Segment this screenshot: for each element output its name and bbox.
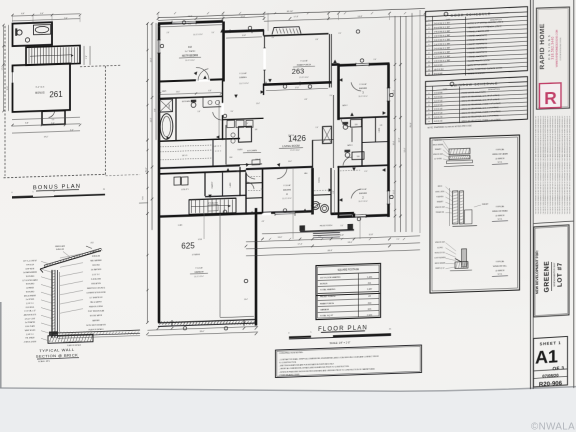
svg-text:SLOPED: SLOPED (437, 247, 443, 249)
svg-text:11'-4" X 11'-0": 11'-4" X 11'-0" (282, 198, 292, 200)
svg-text:6'-4": 6'-4" (40, 13, 44, 15)
svg-text:4/12: 4/12 (90, 242, 93, 244)
svg-text:32'-8": 32'-8" (399, 137, 401, 142)
svg-text:16'-8": 16'-8" (188, 16, 193, 18)
svg-text:4'-8": 4'-8" (262, 221, 265, 223)
svg-text:8: 8 (429, 53, 430, 55)
svg-text:LOT #7: LOT #7 (557, 262, 564, 287)
svg-text:SHWR: SHWR (162, 91, 166, 93)
svg-text:17'-2": 17'-2" (2, 65, 4, 70)
svg-text:12' CLG: 12' CLG (288, 135, 295, 137)
svg-text:7'-0": 7'-0" (246, 123, 249, 125)
svg-text:8'-4": 8'-4" (188, 23, 192, 25)
svg-text:6: 6 (429, 44, 430, 46)
svg-text:WINDOW UNIT: WINDOW UNIT (435, 207, 445, 209)
svg-text:76'-0": 76'-0" (411, 122, 413, 127)
svg-text:6'-0": 6'-0" (339, 33, 342, 35)
svg-text:LIN: LIN (380, 125, 382, 127)
svg-text:TYPICAL: TYPICAL (496, 148, 506, 151)
svg-text:5-0: 5-0 (52, 119, 54, 121)
svg-text:TYP ROOF: TYP ROOF (26, 264, 34, 266)
svg-text:GREENE: GREENE (544, 261, 551, 293)
svg-text:9: 9 (429, 57, 430, 59)
svg-text:7'-0": 7'-0" (86, 55, 88, 59)
svg-text:TOTAL HEATED: TOTAL HEATED (320, 288, 336, 292)
svg-text:A1: A1 (535, 346, 558, 367)
svg-text:SCALE: NTS: SCALE: NTS (38, 360, 50, 363)
svg-text:BRICK VENEER: BRICK VENEER (435, 263, 445, 265)
svg-text:10: 10 (332, 331, 334, 333)
svg-text:11: 11 (428, 65, 430, 67)
svg-text:3'-4": 3'-4" (374, 59, 377, 61)
svg-text:12'-0": 12'-0" (212, 146, 216, 148)
svg-text:R-13 INSUL: R-13 INSUL (26, 307, 35, 309)
svg-text:2: 2 (429, 27, 430, 29)
svg-text:REF SP: REF SP (255, 159, 260, 161)
svg-text:BEDRM: BEDRM (359, 88, 367, 90)
svg-text:LIVING ROOM: LIVING ROOM (282, 144, 299, 149)
svg-text:F: F (428, 113, 429, 115)
svg-text:17'-8": 17'-8" (295, 87, 299, 89)
svg-text:2x4 BLOCK: 2x4 BLOCK (434, 140, 441, 142)
svg-text:2-0 X 4-0: 2-0 X 4-0 (434, 108, 443, 110)
svg-text:5: 5 (429, 40, 430, 42)
svg-text:17'-4": 17'-4" (298, 243, 303, 245)
svg-text:1: 1 (429, 23, 430, 25)
svg-text:9'-0" CLG: 9'-0" CLG (36, 86, 45, 88)
svg-text:24"x12" CONT: 24"x12" CONT (25, 318, 35, 320)
svg-text:6'-8": 6'-8" (208, 90, 212, 92)
svg-text:16'-0" X 13'-0": 16'-0" X 13'-0" (193, 34, 203, 36)
svg-text:9'-0" TRAYED: 9'-0" TRAYED (185, 50, 196, 53)
svg-text:2'-0": 2'-0" (397, 239, 400, 241)
svg-text:5'-4": 5'-4" (318, 235, 322, 237)
svg-text:BRICK: BRICK (438, 186, 442, 188)
svg-text:WINDOW UNIT: WINDOW UNIT (435, 242, 445, 244)
svg-text:DECKING: DECKING (92, 265, 100, 267)
svg-text:11'-0" X 12'-4": 11'-0" X 12'-4" (239, 83, 249, 85)
svg-text:9'-0": 9'-0" (225, 329, 228, 331)
svg-text:25: 25 (389, 329, 391, 331)
svg-text:4'-0": 4'-0" (272, 37, 275, 39)
svg-text:52'-4": 52'-4" (405, 147, 407, 152)
svg-text:8'-8": 8'-8" (21, 13, 25, 15)
svg-text:NEW DEVELOPMENT FOR:: NEW DEVELOPMENT FOR: (535, 250, 539, 294)
svg-text:63'-10": 63'-10" (287, 11, 293, 13)
svg-text:318.562.3440: 318.562.3440 (551, 36, 555, 59)
svg-text:6'-4": 6'-4" (51, 122, 55, 124)
svg-text:4'-0": 4'-0" (163, 326, 167, 328)
svg-text:GARAGE: GARAGE (194, 270, 204, 273)
svg-text:TEXTURED: TEXTURED (26, 284, 35, 286)
svg-text:R: R (544, 88, 557, 108)
svg-text:PANTRY: PANTRY (211, 181, 214, 189)
svg-text:WINDOW JAMB: WINDOW JAMB (492, 153, 508, 157)
svg-text:2x4 STUDS: 2x4 STUDS (26, 299, 34, 301)
svg-text:R-38 BLOWN: R-38 BLOWN (91, 278, 102, 280)
svg-text:10: 10 (428, 61, 430, 63)
svg-text:BRICK VENEER: BRICK VENEER (433, 144, 443, 146)
svg-text:7'-4": 7'-4" (261, 189, 264, 191)
svg-text:N.T.S.: N.T.S. (498, 162, 503, 164)
svg-text:@ 16" O.C.: @ 16" O.C. (26, 303, 35, 305)
svg-text:8'-8": 8'-8" (25, 122, 29, 124)
svg-text:SHINGLES: SHINGLES (92, 255, 100, 257)
svg-text:BEDRM: BEDRM (359, 193, 367, 195)
svg-text:12: 12 (428, 69, 430, 71)
svg-text:2'-4": 2'-4" (248, 323, 252, 325)
svg-text:13'-4": 13'-4" (256, 103, 260, 105)
svg-text:46'-4": 46'-4" (328, 250, 333, 252)
svg-text:11'-8": 11'-8" (369, 234, 374, 236)
svg-text:4: 4 (429, 36, 430, 38)
svg-text:TEXTURED: TEXTURED (26, 291, 35, 293)
svg-text:10'-4": 10'-4" (394, 140, 396, 145)
svg-text:TUB: TUB (355, 124, 358, 126)
svg-text:3: 3 (429, 32, 430, 34)
svg-text:14'-0": 14'-0" (151, 117, 153, 122)
svg-text:9'-0": 9'-0" (231, 111, 234, 113)
svg-text:1,687: 1,687 (367, 289, 373, 291)
svg-text:BEDRM: BEDRM (283, 189, 291, 191)
svg-text:9'-4": 9'-4" (64, 18, 68, 20)
svg-text:WEEPS @ 24": WEEPS @ 24" (435, 268, 445, 270)
svg-text:WINDOW UNIT: WINDOW UNIT (433, 154, 443, 156)
svg-text:2'-8": 2'-8" (167, 32, 170, 34)
svg-text:TOTAL SQ FT: TOTAL SQ FT (320, 314, 334, 317)
svg-text:BONUS: BONUS (320, 283, 328, 285)
svg-text:263: 263 (292, 66, 305, 75)
svg-text:RAPID HOME: RAPID HOME (539, 23, 546, 70)
svg-text:5'-0": 5'-0" (341, 225, 344, 227)
svg-text:TYPICAL: TYPICAL (496, 205, 506, 208)
svg-text:4'-4": 4'-4" (333, 190, 335, 194)
svg-text:11'-0" X 11'-4": 11'-0" X 11'-4" (358, 96, 368, 98)
svg-text:2,623: 2,623 (367, 315, 373, 317)
svg-text:GARAGE: GARAGE (320, 308, 330, 311)
svg-text:4'-0": 4'-0" (70, 129, 74, 131)
svg-text:10: 10 (53, 190, 55, 192)
svg-text:5'-0": 5'-0" (212, 32, 215, 34)
svg-text:ROWLOCK SILL: ROWLOCK SILL (435, 252, 446, 254)
svg-text:SIZE: SIZE (443, 89, 448, 91)
svg-text:DINING: DINING (239, 77, 247, 79)
svg-text:25: 25 (103, 189, 105, 191)
svg-text:7: 7 (429, 48, 430, 50)
svg-text:11'-0": 11'-0" (394, 189, 396, 194)
svg-text:11'-4": 11'-4" (394, 89, 396, 94)
svg-text:261: 261 (49, 90, 63, 99)
svg-text:STOR: STOR (198, 239, 202, 241)
svg-text:0: 0 (289, 332, 290, 334)
svg-text:5'-4": 5'-4" (316, 127, 319, 129)
svg-text:17'-8": 17'-8" (294, 16, 299, 18)
svg-text:DRIP EDGE: DRIP EDGE (26, 268, 35, 270)
svg-text:WINDOW HEAD: WINDOW HEAD (492, 210, 508, 214)
svg-text:UTILITY: UTILITY (181, 189, 189, 191)
svg-text:5: 5 (311, 332, 312, 334)
svg-text:10'-0": 10'-0" (278, 237, 283, 239)
svg-text:5'-8": 5'-8" (198, 111, 201, 113)
svg-text:11'-8": 11'-8" (242, 35, 246, 37)
svg-text:76'-0": 76'-0" (146, 167, 148, 172)
svg-text:14'-8": 14'-8" (358, 16, 363, 18)
svg-text:16'-0": 16'-0" (206, 324, 211, 326)
svg-text:20'-4" X 23'-4": 20'-4" X 23'-4" (194, 276, 204, 278)
svg-text:16'-0": 16'-0" (288, 161, 292, 163)
svg-text:19'-0": 19'-0" (44, 136, 49, 138)
svg-text:3'-0": 3'-0" (330, 95, 333, 97)
svg-text:TUB: TUB (357, 156, 360, 158)
svg-text:WWW.RAPIDHOMEDESIGNS.COM: WWW.RAPIDHOMEDESIGNS.COM (556, 30, 559, 67)
svg-text:9'-8": 9'-8" (155, 108, 157, 112)
svg-text:@ BRICK: @ BRICK (495, 158, 505, 160)
svg-text:OF 3: OF 3 (553, 365, 565, 371)
svg-text:REF: REF (230, 157, 233, 159)
svg-text:STEEL LINTEL: STEEL LINTEL (435, 191, 445, 193)
svg-text:SHINGLES: SHINGLES (56, 249, 64, 251)
svg-text:©NWALAR 20: ©NWALAR 20 (531, 422, 576, 432)
svg-text:#: # (429, 19, 430, 21)
svg-text:N.T.S.: N.T.S. (498, 274, 503, 276)
svg-text:3-0 X 6-0: 3-0 X 6-0 (434, 96, 443, 98)
svg-text:19'-0": 19'-0" (151, 57, 153, 62)
svg-text:10'-0": 10'-0" (176, 91, 180, 93)
svg-text:17'-8" X 10'-0": 17'-8" X 10'-0" (299, 77, 309, 79)
svg-text:0: 0 (12, 192, 13, 194)
svg-text:5: 5 (33, 191, 34, 193)
svg-text:WEEP HOLES: WEEP HOLES (25, 330, 36, 332)
svg-text:@ BRICK: @ BRICK (495, 215, 505, 217)
svg-text:@ 16" O.C.: @ 16" O.C. (92, 274, 101, 276)
svg-text:8'-8": 8'-8" (316, 39, 319, 41)
svg-text:13'-4" X 16'-0": 13'-4" X 16'-0" (185, 60, 195, 62)
svg-text:REAR PORCH: REAR PORCH (320, 302, 334, 305)
svg-text:6'-8": 6'-8" (340, 235, 344, 237)
svg-text:TYPICAL: TYPICAL (496, 260, 506, 263)
svg-text:17'-8" X 16'-0": 17'-8" X 16'-0" (290, 150, 300, 152)
svg-text:N.T.S.: N.T.S. (498, 219, 503, 221)
svg-text:13: 13 (428, 73, 430, 75)
svg-text:W.I.C.: W.I.C. (182, 155, 188, 157)
svg-text:18'-0": 18'-0" (348, 242, 353, 244)
svg-text:6'-8": 6'-8" (305, 99, 308, 101)
svg-text:2-0 X 2-0: 2-0 X 2-0 (434, 116, 443, 118)
svg-text:BONUS: BONUS (35, 90, 44, 94)
svg-text:6'-0": 6'-0" (365, 171, 368, 173)
svg-text:28'-0": 28'-0" (200, 331, 205, 333)
svg-text:@ 48" O.C.: @ 48" O.C. (26, 334, 35, 336)
svg-text:625: 625 (181, 241, 195, 250)
svg-text:11'-0" X 11'-0": 11'-0" X 11'-0" (358, 201, 368, 203)
svg-text:TEXTURED: TEXTURED (26, 276, 35, 278)
svg-text:LINEN: LINEN (379, 128, 381, 132)
svg-text:11'-6": 11'-6" (7, 85, 9, 90)
svg-text:6-0 X 8-0: 6-0 X 8-0 (434, 73, 443, 75)
svg-text:4 TRAYED: 4 TRAYED (192, 253, 201, 256)
svg-text:11'-8": 11'-8" (241, 16, 246, 18)
svg-text:4-0 X 2-0: 4-0 X 2-0 (434, 120, 443, 122)
svg-text:@ BRICK: @ BRICK (495, 270, 505, 272)
svg-text:18'-4": 18'-4" (244, 299, 248, 301)
svg-text:SIZE: SIZE (446, 19, 451, 21)
svg-text:1/2" SHTRK: 1/2" SHTRK (434, 158, 442, 160)
svg-text:FOYER: FOYER (319, 176, 321, 182)
